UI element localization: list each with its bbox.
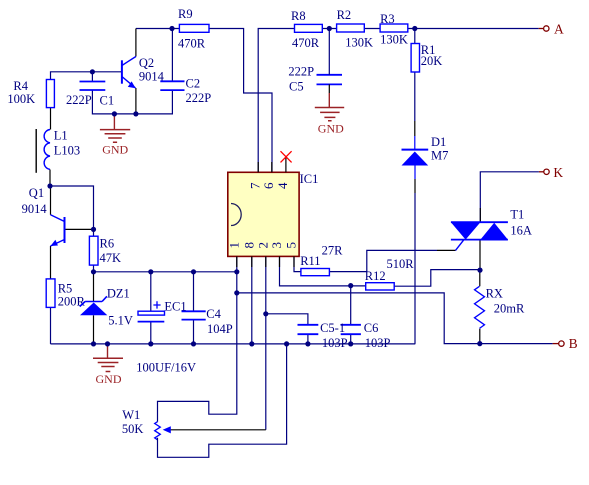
resistor R12 [365,257,414,290]
wire L1 bottom to node [49,170,51,187]
capacitor C6 [341,321,391,350]
junction dot top R1 [412,26,417,31]
svg-text:R2: R2 [337,8,352,22]
wire C6 bottom lead [350,334,352,344]
wire vcc rail to IC pin1 [94,271,237,273]
wire DZ1 top lead [93,272,95,302]
svg-text:C5-1: C5-1 [320,321,345,335]
svg-text:16A: 16A [510,223,532,237]
port K [539,165,564,180]
junction dot top C5 [327,26,332,31]
svg-text:IC1: IC1 [300,172,319,186]
capacitor C1 [66,82,114,108]
junction dot DZ1 ground rail [91,341,96,346]
wire Q1 emitter to R5 [50,246,52,279]
svg-text:6: 6 [261,182,276,189]
wire R4 top to Q2 base [51,72,122,80]
capacitor C5 [288,65,342,94]
svg-text:9014: 9014 [139,69,165,83]
svg-text:103P: 103P [365,336,391,350]
wire C4 leads [193,272,195,344]
svg-text:R4: R4 [13,79,28,93]
ground symbol GND3 on bottom rail [93,344,123,386]
wire C5 bottom stub [328,84,330,93]
svg-text:GND: GND [96,372,122,386]
svg-text:DZ1: DZ1 [107,287,130,301]
port A [539,21,564,36]
svg-text:222P: 222P [288,65,314,79]
wire C5 top lead [328,29,330,75]
junction dot L1 bottom [47,183,52,188]
resistor RX zigzag [475,286,526,328]
svg-text:20K: 20K [421,54,443,68]
no-connect X on pin 4 [281,151,292,162]
svg-text:130K: 130K [345,36,373,50]
svg-text:9014: 9014 [22,202,48,216]
IC pin stubs top [258,158,286,173]
svg-text:R8: R8 [291,9,306,23]
svg-text:27R: 27R [322,244,344,258]
wire R12 right to triac node [394,270,480,287]
svg-text:R5: R5 [58,281,73,295]
resistor R6 [89,236,121,265]
IC pin stubs bottom [237,256,294,267]
svg-text:470R: 470R [292,36,320,50]
junction dot C6 ground rail [348,341,353,346]
svg-text:C5: C5 [289,80,304,94]
junction dot pin1 B wire [234,290,239,295]
svg-text:EC1: EC1 [164,300,186,314]
svg-text:D1: D1 [431,135,446,149]
junction dot Q2 emitter [133,111,138,116]
svg-text:3: 3 [269,242,284,249]
svg-text:RX: RX [486,287,503,301]
svg-text:C4: C4 [206,307,221,321]
junction dot rail pin1 [234,269,239,274]
junction dot C1 top [90,69,95,74]
svg-text:8: 8 [241,242,256,248]
svg-text:130K: 130K [380,32,408,46]
wire pin1 node right to B rail [237,293,553,344]
wire R6 bottom to vcc rail [93,265,95,272]
svg-text:Q1: Q1 [29,186,44,200]
junction dot top C2 [169,26,174,31]
wire triac MT1 down to RX node [479,240,481,271]
wire EC1 leads [150,272,152,344]
svg-text:M7: M7 [431,149,448,163]
wire R1 bottom to D1 cathode [414,72,416,121]
wire R5 bottom to rail corner [50,307,52,344]
svg-text:R9: R9 [178,7,193,21]
wire IC pin1 down to W1 top terminal [158,256,237,421]
ground symbol GND2 under C5 [315,93,344,135]
svg-text:50K: 50K [122,422,144,436]
junction dot C5-1 ground rail [305,341,310,346]
resistor R3 [380,12,408,46]
resistor R8 [291,9,322,50]
wire W1 bottom to ground rail riser [158,344,287,457]
svg-text:510R: 510R [387,257,415,271]
wire R11 right up to triac gate [329,250,437,271]
resistor R2 [337,8,373,50]
svg-text:R3: R3 [380,12,395,26]
junction dot RX bottom B rail [477,341,482,346]
svg-text:K: K [553,165,563,180]
junction dot R6 bottom rail [91,269,96,274]
wire RX leads [479,270,481,343]
wire node to Q1 collector [50,186,52,215]
ground symbol GND1 under Q2 [100,114,130,157]
IC U1 box [228,172,319,256]
wire C6 top lead from R12 wire [350,286,352,325]
wire Q2 collector lead [135,29,137,57]
capacitor EC1 polarized [136,300,196,375]
junction dot Q1 base [91,227,96,232]
wire IC pin3 to R12 left [280,256,366,286]
wire C2 top lead [171,29,173,82]
resistor R5 [46,279,85,308]
wire C5-1 bottom lead [307,334,309,344]
resistor R11 [300,244,343,276]
junction dot C4 ground rail [191,341,196,346]
wire R1 top lead from node A rail [414,29,416,44]
svg-text:R6: R6 [100,237,115,251]
junction dot GND1 [112,111,117,116]
svg-text:R11: R11 [300,254,320,268]
svg-text:C6: C6 [364,321,379,335]
wire D1 anode down to ground rail corner [414,166,416,180]
svg-text:103P: 103P [322,336,348,350]
capacitor C4 [182,307,233,336]
svg-text:B: B [569,336,578,351]
svg-text:4: 4 [275,182,290,189]
svg-text:100K: 100K [7,92,35,106]
svg-text:R12: R12 [365,269,386,283]
wire base junction to R6 top [93,229,95,236]
svg-text:5: 5 [284,242,299,249]
svg-text:A: A [554,21,564,36]
capacitor C2 [160,77,211,105]
resistor R1 [411,43,442,72]
wire C1 top lead [91,72,93,82]
svg-text:T1: T1 [510,208,524,222]
resistor R4 [7,79,54,108]
junction dot EC1 rail [148,269,153,274]
svg-text:47K: 47K [100,251,122,265]
junction dot GND3 rail [105,341,110,346]
wire R4 bottom to L1 [50,108,52,130]
wire IC pin8 down to ground rail [251,256,253,344]
svg-text:C2: C2 [186,77,201,91]
svg-text:GND: GND [102,143,128,157]
svg-text:C1: C1 [100,94,115,108]
junction dot R12 C6 [348,283,353,288]
wire Q1 base stub [65,228,94,230]
svg-text:5.1V: 5.1V [108,314,133,328]
svg-text:Q2: Q2 [139,56,154,70]
svg-text:W1: W1 [122,408,140,422]
junction dot pin8 ground rail [249,341,254,346]
svg-text:L103: L103 [54,143,80,157]
svg-text:104P: 104P [207,322,233,336]
svg-text:222P: 222P [66,93,92,107]
wire Q2 emitter lead [135,88,137,114]
resistor R9 [178,7,209,50]
capacitor C5-1 [298,321,348,350]
svg-text:470R: 470R [178,36,206,50]
wire node K to triac MT2 [480,172,539,222]
diode D1 [402,135,449,166]
junction dot C4 rail [191,269,196,274]
junction dot triac RX 510R [477,268,482,273]
wire C1 bottom to emitter/GND to C2 bottom [92,90,172,114]
svg-text:GND: GND [318,121,344,135]
wire IC pin5 to R11 left [294,256,301,271]
zener diode DZ1 [80,287,133,328]
svg-text:1: 1 [226,242,241,249]
svg-text:100UF/16V: 100UF/16V [136,360,196,374]
svg-text:L1: L1 [54,129,68,143]
transistor Q2 [122,56,165,88]
wire pin7 up to top rail to node A [258,29,539,173]
inductor L1 [36,129,80,173]
junction dot W1 riser ground rail [284,341,289,346]
junction dot EC1 ground rail [148,341,153,346]
wire DZ1 bottom lead [93,315,95,344]
wire top-left from Q2 collector to R9 to pin6 jog [136,29,272,173]
port B [553,336,578,351]
svg-text:20mR: 20mR [494,301,525,315]
potentiometer W1 [122,408,171,440]
wire pin2 node to C5-1 top [266,314,308,325]
wire L1 node right and down to Q1 base junction [50,186,94,229]
wire IC pin2 down to W1 wiper [265,256,267,429]
svg-text:222P: 222P [186,91,212,105]
svg-text:200R: 200R [58,294,86,308]
wire ground rail bottom [51,343,416,345]
junction dot pin2 C5-1 [263,311,268,316]
triac T1 [451,208,532,251]
transistor Q1 [22,186,65,246]
